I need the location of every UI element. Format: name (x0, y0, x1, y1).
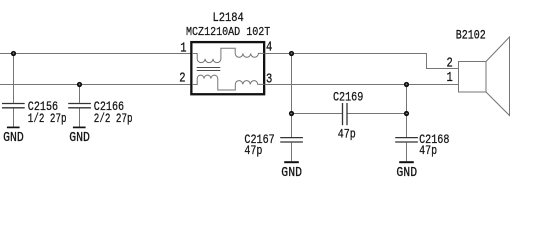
svg-text:47p: 47p (419, 145, 437, 158)
svg-text:2/2 27p: 2/2 27p (94, 113, 133, 126)
svg-text:47p: 47p (244, 145, 262, 158)
svg-text:1: 1 (180, 40, 186, 56)
svg-text:1: 1 (447, 70, 453, 86)
svg-text:C2169: C2169 (333, 92, 363, 105)
svg-text:GND: GND (3, 130, 24, 145)
svg-text:3: 3 (266, 71, 272, 87)
svg-text:GND: GND (69, 130, 90, 145)
svg-text:GND: GND (396, 165, 417, 180)
svg-text:L2184: L2184 (213, 12, 244, 25)
svg-text:MCZ1210AD 102T: MCZ1210AD 102T (186, 26, 271, 39)
svg-text:4: 4 (266, 39, 272, 55)
svg-text:GND: GND (281, 165, 302, 180)
svg-text:1/2 27p: 1/2 27p (28, 113, 67, 126)
svg-text:2: 2 (179, 70, 185, 86)
svg-text:B2102: B2102 (456, 28, 486, 43)
svg-text:47p: 47p (338, 129, 356, 142)
